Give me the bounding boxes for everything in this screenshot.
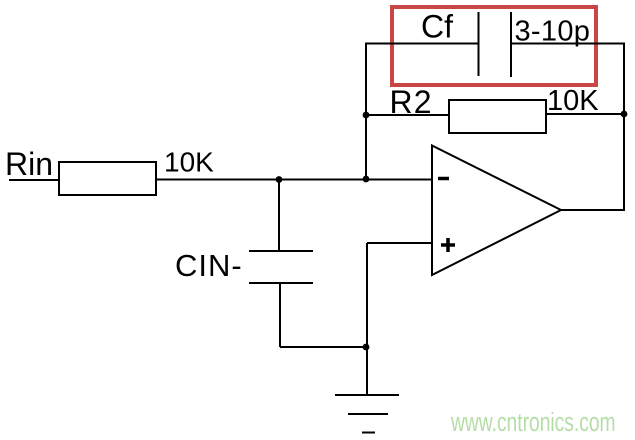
junction node input/feedback <box>363 176 370 183</box>
wire R2 left <box>366 114 449 116</box>
wire CIN top <box>278 180 280 252</box>
wire Cf left <box>366 43 479 45</box>
capacitor CIN- <box>249 251 313 283</box>
wire feedback left vertical <box>365 43 367 180</box>
wire feedback right vertical <box>623 43 625 211</box>
wire non-inverting input <box>367 242 432 244</box>
resistor R2 <box>449 100 546 133</box>
junction R2 left <box>363 112 370 119</box>
pin label minus <box>438 177 449 181</box>
wire non-inverting vertical <box>366 243 368 347</box>
wire inverting input <box>156 179 432 181</box>
junction node input/CIN <box>276 176 283 183</box>
wire bottom horizontal <box>280 346 367 348</box>
svg-text:10K: 10K <box>164 147 214 178</box>
capacitor Cf <box>479 12 512 77</box>
resistor Rin <box>59 162 156 195</box>
svg-text:10K: 10K <box>547 85 599 117</box>
pin label plus <box>441 238 455 252</box>
ground <box>335 395 399 433</box>
svg-text:CIN-: CIN- <box>175 248 243 283</box>
junction ground node <box>363 344 370 351</box>
svg-text:www.cntronics.com: www.cntronics.com <box>450 407 615 437</box>
wire Cf right <box>511 43 624 45</box>
svg-text:Cf: Cf <box>421 9 453 45</box>
wire ground vertical <box>366 347 368 395</box>
wire R2 right <box>546 113 624 115</box>
junction R2 right <box>621 111 628 118</box>
red highlight box around Cf <box>392 7 596 85</box>
wire Rin left <box>9 179 59 181</box>
op-amp U1 <box>432 146 561 276</box>
wire CIN bottom <box>279 283 281 347</box>
svg-text:Rin: Rin <box>5 146 53 182</box>
wire output <box>561 209 625 211</box>
